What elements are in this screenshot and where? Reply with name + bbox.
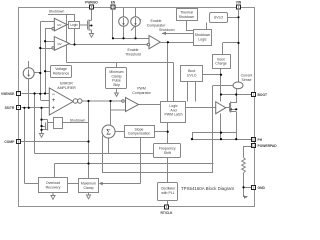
svg-text:PWRGD: PWRGD bbox=[85, 0, 98, 4]
svg-text:Shift: Shift bbox=[164, 151, 171, 155]
svg-text:Shutdown: Shutdown bbox=[49, 10, 65, 14]
svg-text:+: + bbox=[52, 98, 56, 104]
svg-text:SS/TR: SS/TR bbox=[5, 106, 15, 110]
svg-text:UV: UV bbox=[57, 23, 61, 27]
svg-text:BOOT: BOOT bbox=[258, 93, 268, 97]
svg-text:VIN: VIN bbox=[236, 0, 242, 4]
svg-text:+: + bbox=[52, 105, 56, 111]
svg-text:UVLO: UVLO bbox=[187, 73, 197, 77]
svg-text:Compensation: Compensation bbox=[128, 132, 151, 136]
svg-text:RT/CLK: RT/CLK bbox=[160, 211, 173, 215]
svg-text:OV: OV bbox=[57, 42, 61, 46]
svg-text:Shutdown: Shutdown bbox=[179, 15, 195, 19]
svg-text:PH: PH bbox=[258, 138, 263, 142]
svg-text:Threshold: Threshold bbox=[125, 52, 141, 56]
svg-text:PWM Latch: PWM Latch bbox=[164, 113, 182, 117]
svg-text:TPS54160A Block Diagram: TPS54160A Block Diagram bbox=[181, 186, 235, 191]
svg-text:Skip: Skip bbox=[113, 83, 120, 87]
svg-text:POWERPAD: POWERPAD bbox=[258, 144, 278, 148]
svg-text:Enable: Enable bbox=[151, 19, 162, 23]
svg-text:Logic: Logic bbox=[70, 23, 78, 27]
svg-text:UVLO: UVLO bbox=[214, 16, 224, 20]
svg-text:Sense: Sense bbox=[242, 78, 252, 82]
svg-text:Reference: Reference bbox=[53, 71, 69, 75]
svg-text:GND: GND bbox=[258, 186, 266, 190]
svg-text:Σ: Σ bbox=[106, 128, 111, 137]
svg-text:10: 10 bbox=[252, 138, 256, 142]
svg-text:Maximum: Maximum bbox=[81, 181, 96, 185]
svg-text:11: 11 bbox=[252, 144, 255, 148]
svg-text:Logic: Logic bbox=[198, 37, 207, 41]
svg-text:Charge: Charge bbox=[215, 62, 227, 66]
svg-text:Shutdown: Shutdown bbox=[159, 28, 175, 32]
svg-text:Overload: Overload bbox=[46, 181, 60, 185]
svg-text:Clamp: Clamp bbox=[83, 186, 93, 190]
svg-text:VSENSE: VSENSE bbox=[1, 92, 15, 96]
svg-text:Recovery: Recovery bbox=[46, 185, 61, 189]
svg-text:Shutdown: Shutdown bbox=[70, 119, 86, 123]
svg-text:AMPLIFIER: AMPLIFIER bbox=[57, 86, 76, 90]
svg-text:Comparator: Comparator bbox=[132, 91, 151, 95]
svg-text:COMP: COMP bbox=[4, 140, 15, 144]
svg-text:EN: EN bbox=[111, 0, 116, 4]
svg-text:with PLL: with PLL bbox=[161, 191, 174, 195]
